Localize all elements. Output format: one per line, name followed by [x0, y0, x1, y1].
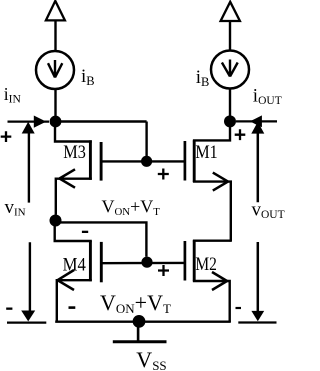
wire gate row 2 [101, 262, 185, 265]
wire drop to node B [145, 122, 147, 162]
current source iB right (circle) [211, 51, 249, 89]
svg-text:vOUT: vOUT [252, 200, 285, 222]
svg-text:M4: M4 [63, 256, 86, 276]
svg-text:iIN: iIN [4, 84, 22, 106]
vOUT top arrowhead [251, 122, 264, 134]
transistor M3 source arrow [60, 169, 76, 187]
wire node A to gate drop [56, 120, 147, 122]
wire iOUT [236, 120, 277, 122]
transistor M4 source lead [57, 280, 92, 321]
VDD symbol right (triangle) [221, 2, 240, 21]
bottom rail left stub [7, 321, 46, 323]
iOUT arrowhead [250, 115, 262, 127]
vIN measure line upper [28, 133, 30, 203]
transistor M2 channel bar [193, 240, 196, 281]
plus sign vOUT top [235, 129, 246, 140]
vOUT measure line lower [257, 242, 260, 312]
transistor M4 channel bar [89, 241, 92, 282]
vIN top arrowhead [22, 122, 35, 134]
bottom rail right stub [238, 321, 276, 323]
VDD symbol left (triangle) [46, 1, 65, 21]
svg-text:vIN: vIN [5, 197, 26, 219]
current source iB right arrow [222, 60, 238, 77]
transistor M4 gate bar [100, 242, 103, 282]
svg-text:VON+VT: VON+VT [102, 197, 161, 219]
svg-text:iB: iB [81, 66, 95, 88]
transistor M1 gate bar [184, 141, 187, 181]
node C (M3 source / M4 drain) [50, 215, 62, 227]
transistor M1 channel bar [193, 140, 196, 182]
svg-text:M3: M3 [63, 143, 86, 163]
transistor M2 source arrow [212, 272, 227, 290]
transistor M4 source arrow [58, 270, 75, 290]
svg-text:M2: M2 [195, 255, 217, 275]
svg-text:M1: M1 [195, 143, 217, 163]
transistor M2 source lead [193, 281, 230, 322]
plus sign vIN top [1, 131, 12, 142]
plus sign gate row 1 [158, 169, 169, 180]
node E (gate row 2 node) [141, 257, 152, 268]
wire node C to gate row 2 drop [56, 222, 147, 256]
current source iB left arrow [48, 60, 62, 78]
minus sign vOUT bottom [236, 307, 242, 309]
transistor M3 source lead [56, 179, 92, 215]
svg-text:VON+VT: VON+VT [100, 290, 171, 316]
vOUT measure line upper [257, 133, 260, 203]
wire current source left to node A [54, 89, 56, 122]
plus sign gate row 2 [158, 265, 169, 276]
node F (VSS rail node) [133, 315, 146, 328]
transistor M3 drain lead [55, 124, 92, 142]
vIN bottom arrowhead [21, 311, 35, 322]
minus sign VON+VT bottom [69, 306, 76, 309]
wire iIN input [8, 120, 50, 122]
VSS bar [113, 340, 167, 343]
transistor M1 drain lead [193, 121, 230, 140]
node A (input top node) [50, 116, 62, 128]
transistor M3 gate bar [100, 142, 103, 181]
transistor M1 source lead [193, 182, 231, 242]
node D (output top node) [224, 115, 236, 127]
node B (gate row 1 node) [141, 156, 152, 167]
wire gate row 1 [101, 160, 185, 162]
svg-text:VSS: VSS [136, 347, 166, 371]
svg-text:iOUT: iOUT [253, 86, 282, 108]
wire current source right to node D [229, 89, 231, 122]
minus sign VON+VT middle [82, 231, 88, 233]
iIN arrowhead [34, 116, 46, 128]
minus sign vIN bottom [6, 308, 12, 310]
svg-text:iB: iB [196, 67, 210, 89]
bottom rail main [55, 321, 231, 323]
VSS stub [137, 321, 140, 341]
vIN measure line lower [29, 242, 31, 311]
wire VDD-left to current source [54, 20, 56, 51]
current source iB left (circle) [36, 51, 74, 89]
transistor M2 gate bar [184, 241, 187, 281]
transistor M3 channel bar [89, 140, 92, 180]
vOUT bottom arrowhead [251, 311, 264, 321]
transistor M4 drain lead [55, 221, 92, 242]
wire VDD-right to current source [229, 21, 231, 51]
transistor M2 drain lead [193, 239, 231, 241]
transistor M1 source arrow [213, 173, 228, 191]
